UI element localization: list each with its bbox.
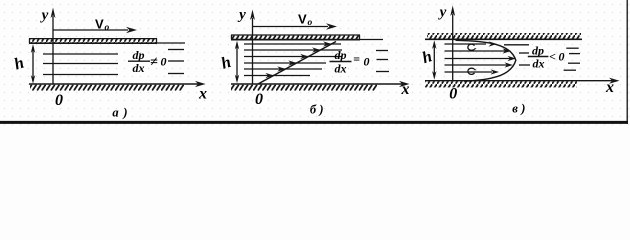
y-axis fig a — [51, 8, 56, 85]
svg-text:dp: dp — [335, 48, 347, 62]
dp/dx = 0 label fig b — [330, 48, 370, 76]
streamline dash mid fig v (bottom) — [519, 64, 530, 66]
streamline 2 fig b — [244, 49, 342, 51]
svg-text:б: б — [310, 103, 317, 117]
svg-text:y: y — [438, 5, 447, 21]
rotation curl bottom fig v — [468, 68, 475, 74]
streamline 3 fig b — [244, 56, 342, 58]
streamline dash right fig a (bottom) — [168, 73, 184, 75]
streamline fig a (middle) — [43, 63, 118, 65]
velocity arrowhead 2 fig b — [312, 47, 321, 52]
V0 velocity arrow fig b — [253, 23, 337, 29]
V0 velocity arrow fig a — [54, 27, 138, 33]
fixed top wall fig v — [425, 33, 582, 39]
svg-text:h: h — [219, 52, 234, 73]
svg-text:0: 0 — [449, 86, 457, 103]
moving plate fig b — [231, 35, 360, 40]
plate underside extension line fig b — [360, 39, 383, 41]
y-axis fig b — [250, 10, 255, 85]
svg-text:0: 0 — [364, 55, 370, 69]
svg-text:x: x — [198, 86, 207, 103]
svg-text:0: 0 — [559, 50, 565, 64]
svg-text:≠: ≠ — [150, 55, 158, 70]
plate underside extension line fig a — [157, 42, 185, 44]
streamline 4 fig v — [445, 64, 508, 66]
streamline dash right fig v (4) — [564, 69, 576, 71]
ground wall with x-axis fig a — [29, 81, 206, 91]
velocity arrowhead 4 fig b — [288, 60, 297, 65]
svg-text:dp: dp — [133, 48, 145, 62]
streamline fig a (top) — [43, 53, 118, 55]
streamline 6 fig b — [244, 75, 310, 77]
svg-text:0: 0 — [161, 55, 167, 69]
svg-text:o: o — [308, 18, 313, 28]
svg-text:y: y — [237, 7, 246, 23]
streamline 5 fig v — [445, 71, 493, 73]
moving plate fig a — [29, 39, 157, 44]
svg-text:o: o — [105, 23, 110, 33]
svg-text:а: а — [112, 106, 118, 120]
streamline dash right fig a (middle) — [168, 60, 184, 62]
svg-text:dx: dx — [133, 61, 145, 75]
svg-text:): ) — [122, 106, 127, 120]
bottom border line — [0, 121, 628, 124]
velocity arrowhead 2 fig v — [503, 48, 512, 53]
streamline dash right fig b (top) — [376, 50, 388, 52]
svg-text:dx: dx — [533, 57, 545, 71]
y-axis fig v — [450, 6, 455, 81]
streamline dash right fig b (middle) — [377, 59, 389, 61]
h dimension arrow fig b — [235, 41, 239, 84]
h dimension arrow fig v — [432, 40, 436, 80]
streamline 2 fig v — [445, 50, 506, 52]
streamline fig a (bottom) — [43, 74, 118, 76]
velocity arrowhead 6 fig b — [265, 73, 274, 78]
velocity arrowhead 5 fig b — [277, 66, 286, 71]
streamline 3 fig v — [445, 58, 511, 60]
dp/dx != 0 label fig a — [128, 48, 167, 75]
svg-text:V: V — [298, 12, 307, 27]
streamline dash mid fig v (top) — [519, 52, 529, 54]
streamline dash right fig v (3) — [568, 62, 580, 64]
streamline 1 fig b — [244, 43, 341, 45]
svg-text:<: < — [549, 50, 556, 64]
svg-text:dx: dx — [335, 62, 347, 76]
streamline dash right fig a (top) — [168, 49, 184, 51]
svg-text:0: 0 — [55, 92, 63, 109]
dp/dx < 0 label fig v — [528, 44, 565, 71]
streamline 4 fig b — [244, 62, 326, 64]
ground wall with x-axis fig b — [231, 81, 410, 91]
right border line — [626, 0, 628, 124]
svg-text:0: 0 — [255, 91, 263, 108]
linear velocity profile diagonal fig b — [258, 42, 336, 85]
velocity arrowhead 3 fig b — [300, 54, 309, 59]
velocity arrowhead 3 fig v — [508, 56, 517, 61]
streamline dash right fig v (2) — [569, 53, 580, 55]
svg-text:x: x — [605, 79, 614, 96]
svg-text:V: V — [95, 17, 104, 32]
rotation curl top fig v — [468, 44, 475, 50]
streamline 5 fig b — [244, 68, 322, 70]
streamline dash right fig v (1) — [566, 47, 578, 49]
ground wall with x-axis fig v — [425, 78, 620, 88]
svg-text:y: y — [40, 8, 49, 24]
streamline dash right fig b (bottom) — [376, 71, 389, 73]
svg-text:): ) — [318, 103, 323, 117]
svg-text:=: = — [353, 52, 360, 66]
svg-text:): ) — [520, 102, 525, 116]
svg-text:dp: dp — [532, 44, 544, 58]
svg-text:в: в — [512, 102, 518, 116]
velocity arrowhead 1 fig b — [323, 41, 332, 46]
svg-text:h: h — [12, 53, 27, 74]
velocity arrowhead 5 fig v — [491, 69, 500, 74]
svg-text:h: h — [420, 46, 435, 67]
h dimension arrow fig a — [31, 44, 35, 84]
streamline 1 fig v — [445, 43, 487, 45]
parabolic velocity profile fig v — [456, 40, 516, 81]
streamline dash top-right fig v — [504, 44, 529, 46]
svg-text:x: x — [401, 81, 410, 98]
velocity arrowhead 1 fig v — [489, 41, 498, 46]
velocity arrowhead 4 fig v — [505, 62, 514, 67]
